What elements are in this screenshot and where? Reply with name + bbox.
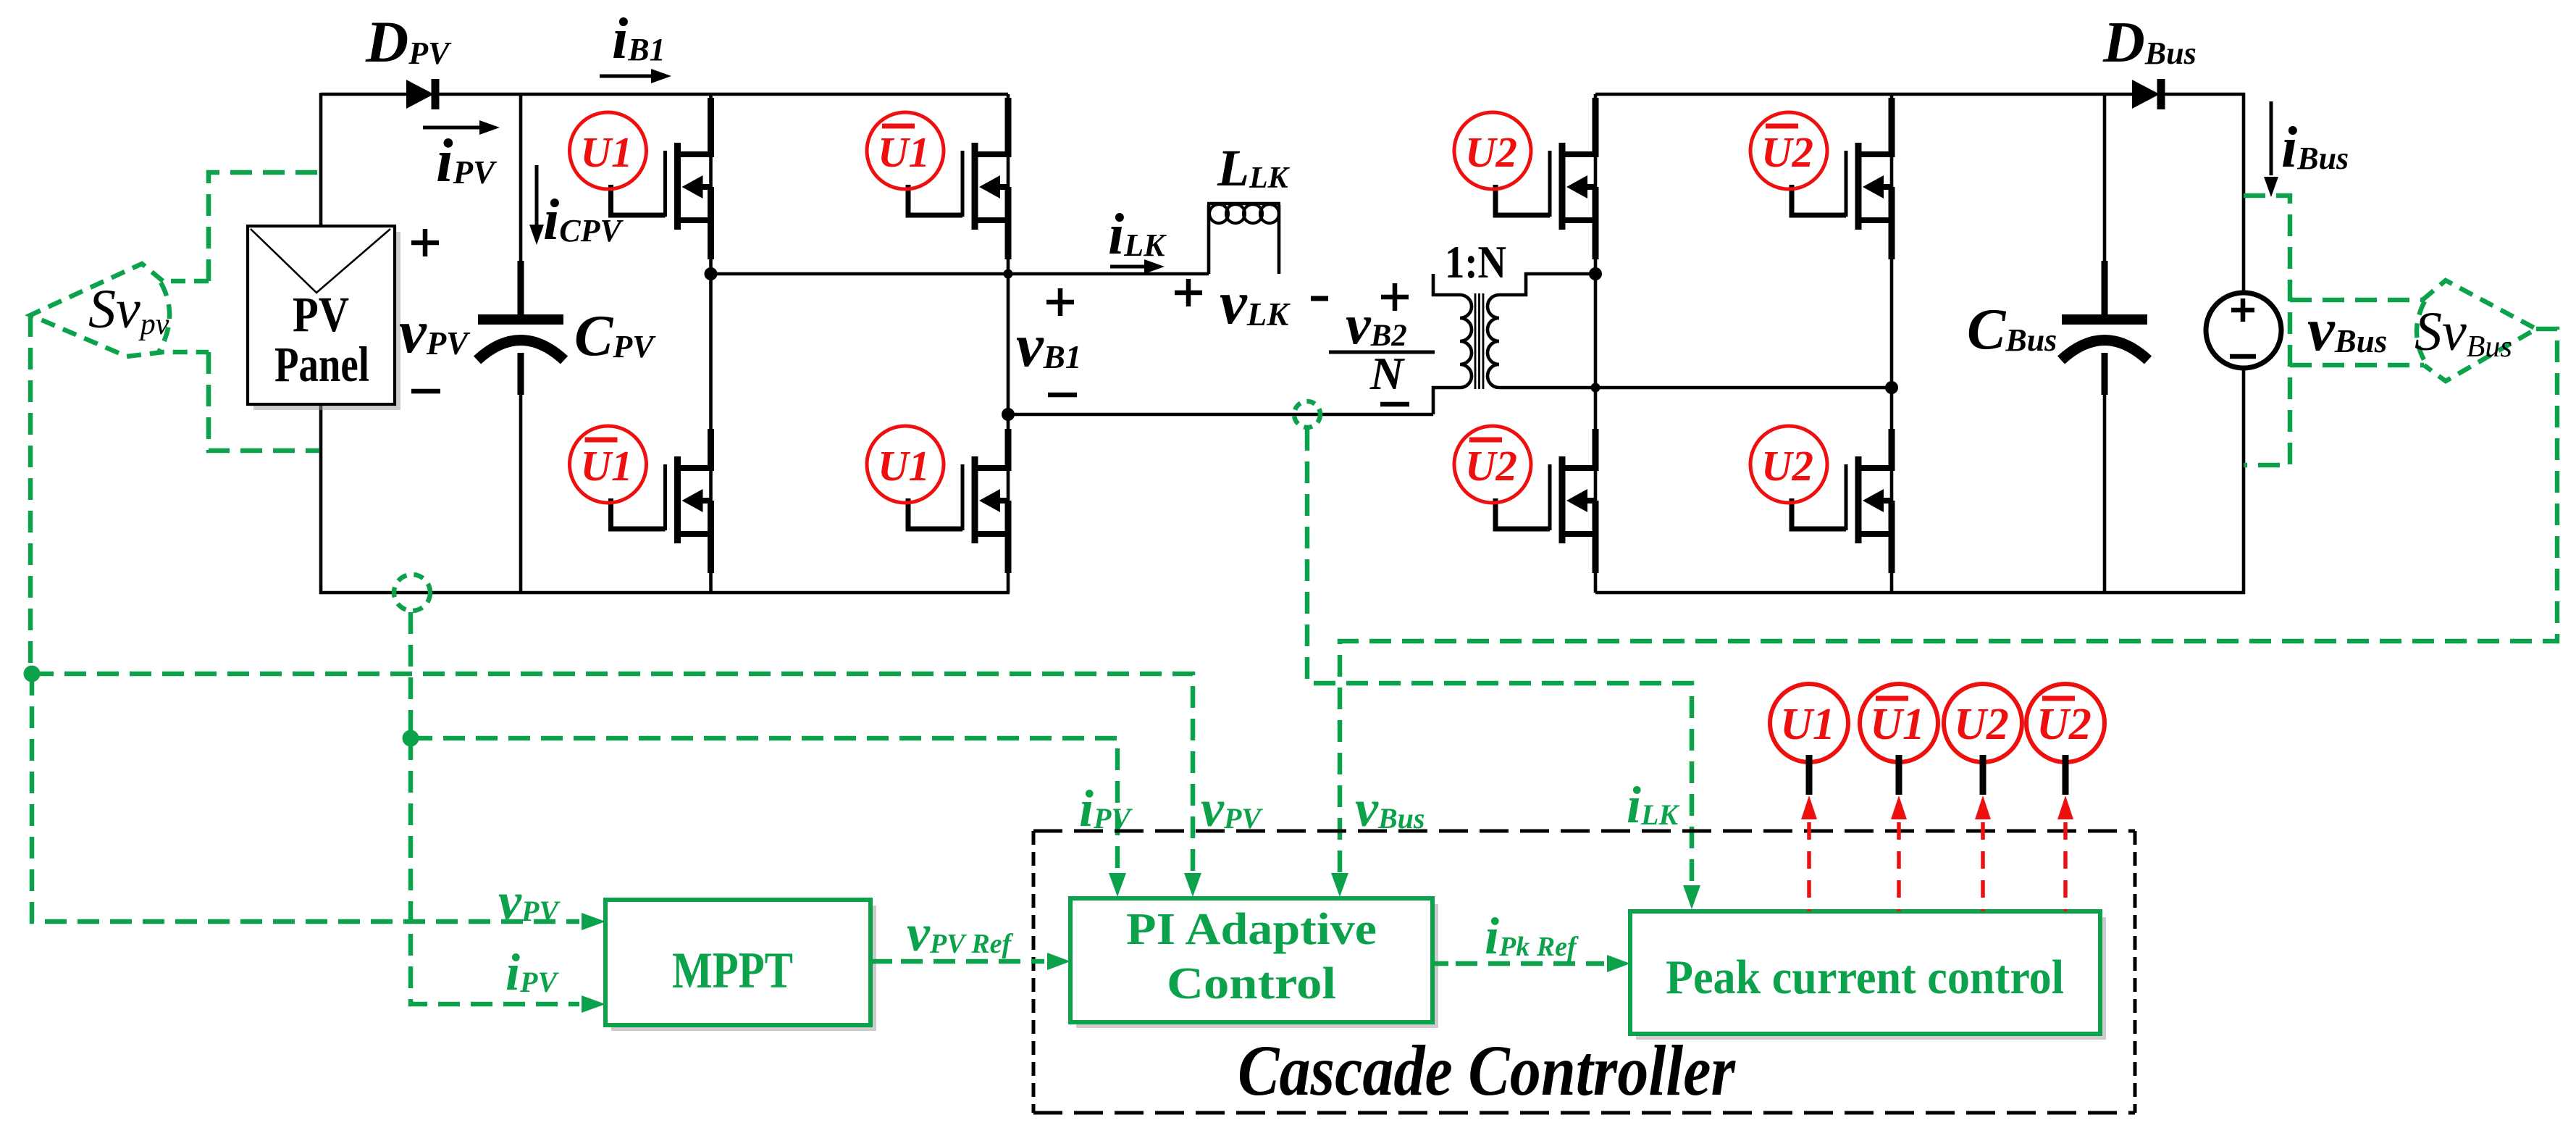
wire C_Bus branch bottom: [2103, 356, 2107, 594]
svg-text:U1: U1: [580, 442, 632, 490]
svg-text:U1: U1: [580, 128, 632, 176]
wire sense i_PV drop: [408, 612, 414, 738]
wire sense v_Bus from tag to PI: [1340, 329, 2557, 873]
gate drive arrow to U1: [1801, 795, 1817, 911]
label v_PV plus: [411, 229, 439, 256]
sensor tag Sv_Bus dashed outline: [2417, 280, 2536, 381]
node bridge1 left midpoint: [705, 267, 718, 280]
current sensor loop i_LK: [1294, 401, 1320, 427]
arrow i_LK: [1110, 259, 1165, 274]
wire sense v_PV long line to PI: [32, 674, 1193, 873]
node bridge1 right leg lower: [1002, 408, 1015, 421]
transistor U2bar lower-left of bridge 2: [1454, 426, 1595, 573]
svg-text:U1: U1: [1780, 700, 1835, 749]
block Peak current control: [1630, 911, 2106, 1040]
wire right bridge leg B: [1890, 94, 1894, 593]
arrow i_Bus: [2264, 101, 2278, 197]
node bridge2 right midpoint: [1885, 381, 1898, 394]
wire right bridge leg A: [1594, 94, 1598, 593]
svg-text:Control: Control: [1167, 959, 1336, 1008]
wire top rail left bridge (cathode side to right leg): [434, 93, 1008, 96]
label v_B1 minus: [1048, 393, 1077, 398]
node green i_PV junction: [403, 730, 419, 747]
wire sense v_PV down to MPPT: [32, 674, 579, 922]
gate signal circle U2: [1944, 684, 2022, 795]
label v_LK minus: [1311, 296, 1328, 301]
arrow v_PV into PI: [1184, 873, 1201, 897]
wire sense i_LK: [1307, 429, 1692, 885]
transistor U1bar upper-right of bridge 1: [867, 98, 1008, 259]
wire left bridge leg A: [709, 94, 713, 593]
gate signal circle U1: [1770, 684, 1848, 795]
svg-text:U2: U2: [1761, 442, 1813, 490]
wire left bridge leg B: [1007, 94, 1010, 593]
wire C_Bus branch top: [2103, 93, 2107, 317]
voltage source v_Bus: [2206, 293, 2281, 368]
wire top rail right of D_Bus: [2160, 93, 2245, 96]
wire sense i_PV down to MPPT: [411, 738, 579, 1004]
block PI Adaptive Control: [1070, 898, 1438, 1028]
wire top rail right bridge: [1595, 93, 2132, 96]
svg-text:1:N: 1:N: [1445, 236, 1506, 288]
svg-text:Cascade Controller: Cascade Controller: [1238, 1030, 1736, 1111]
node bridge2 left leg lower crossing: [1591, 383, 1600, 393]
wire sense v_Bus upper lead to tag: [2290, 298, 2422, 303]
svg-text:U1: U1: [878, 128, 930, 176]
wire sense Sv_pv to PV+: [209, 172, 319, 281]
wire C_PV branch bottom: [519, 355, 523, 594]
PV panel: [248, 226, 400, 410]
arrow i_LK into Peak box: [1683, 885, 1700, 909]
wire output branch top: [2242, 93, 2246, 294]
wire bridge1 output +: [711, 272, 1209, 276]
arrow i_B1: [600, 69, 671, 83]
svg-text:U1: U1: [878, 442, 930, 490]
wire bridge1 output -: [1008, 413, 1433, 417]
arrow i_CPV: [529, 165, 544, 245]
current sensor loop i_PV: [394, 575, 430, 611]
arrow i_PV into PI: [1109, 873, 1126, 897]
wire bottom rail right bridge: [1595, 591, 2245, 595]
wire PV panel bottom lead: [319, 404, 323, 594]
wire PV panel top lead: [319, 93, 323, 227]
label v_LK plus: [1175, 279, 1202, 306]
diode D_Bus: [2132, 79, 2161, 109]
wire bottom rail left bridge: [319, 591, 1010, 595]
svg-text:U1: U1: [1870, 700, 1925, 749]
diode D_PV: [406, 79, 435, 109]
wire sense i_PV long line to PI: [411, 738, 1117, 873]
svg-text:U2: U2: [1465, 442, 1517, 490]
label v_B1 plus: [1046, 288, 1074, 316]
svg-text:Peak current control: Peak current control: [1666, 951, 2064, 1004]
wire sense v_Bus loop at source: [2244, 196, 2290, 465]
wire v_PV_Ref MPPT to PI: [870, 953, 1070, 970]
transistor U1 lower-right of bridge 1: [867, 426, 1008, 573]
wire sense v_Bus lower lead to tag: [2290, 363, 2424, 368]
svg-text:U2: U2: [1761, 128, 1813, 176]
controller box Cascade Controller dashed: [1033, 831, 2135, 1113]
inductor L_LK: [1207, 204, 1280, 274]
capacitor C_PV: [477, 261, 564, 395]
block MPPT: [605, 900, 876, 1031]
svg-text:PV: PV: [293, 287, 349, 342]
gate signal circle U1bar: [1860, 684, 1938, 795]
arrow v_Bus into PI: [1331, 873, 1348, 897]
svg-text:PI Adaptive: PI Adaptive: [1126, 905, 1377, 954]
gate signal circle U2bar: [2026, 684, 2105, 795]
svg-text:N: N: [1369, 348, 1406, 399]
svg-text:U2: U2: [1954, 700, 2009, 749]
transformer T1 1:N: [1433, 274, 1892, 414]
wire C_PV branch top: [519, 93, 523, 316]
wire i_Pk_Ref PI to Peak: [1432, 955, 1630, 972]
sensor tag Sv_pv dashed outline: [30, 264, 209, 356]
node bridge1 right leg upper: [1004, 270, 1013, 279]
arrow i_PV: [423, 120, 500, 135]
svg-text:U2: U2: [2036, 700, 2092, 749]
capacitor C_Bus: [2061, 261, 2148, 395]
svg-text:U2: U2: [1465, 128, 1517, 176]
transistor U2bar upper-right of bridge 2: [1750, 98, 1892, 259]
wire top rail left bridge (anode side): [321, 93, 406, 96]
wire sense v_PV left drop: [28, 315, 33, 674]
arrow i_PV into MPPT: [582, 995, 605, 1013]
transistor U2 upper-left of bridge 2: [1454, 98, 1595, 259]
node bridge2 left midpoint: [1589, 267, 1602, 280]
label v_PV minus: [411, 389, 440, 394]
arrow v_PV into MPPT: [582, 913, 605, 930]
svg-text:MPPT: MPPT: [672, 943, 793, 999]
node green v_PV junction: [24, 666, 41, 682]
label fraction v_B2 over N with plus/minus: [1329, 283, 1435, 404]
transistor U2 lower-right of bridge 2: [1750, 426, 1892, 573]
wire sense Sv_pv to PV-: [209, 352, 319, 451]
wire output branch bottom: [2242, 367, 2246, 594]
gate drive arrow to U2bar: [2057, 795, 2073, 911]
gate drive arrow to U2: [1975, 795, 1991, 911]
transistor U1 upper-left of bridge 1: [570, 98, 711, 259]
transistor U1bar lower-left of bridge 1: [570, 426, 711, 573]
svg-text:Panel: Panel: [274, 337, 369, 392]
gate drive arrow to U1bar: [1891, 795, 1907, 911]
